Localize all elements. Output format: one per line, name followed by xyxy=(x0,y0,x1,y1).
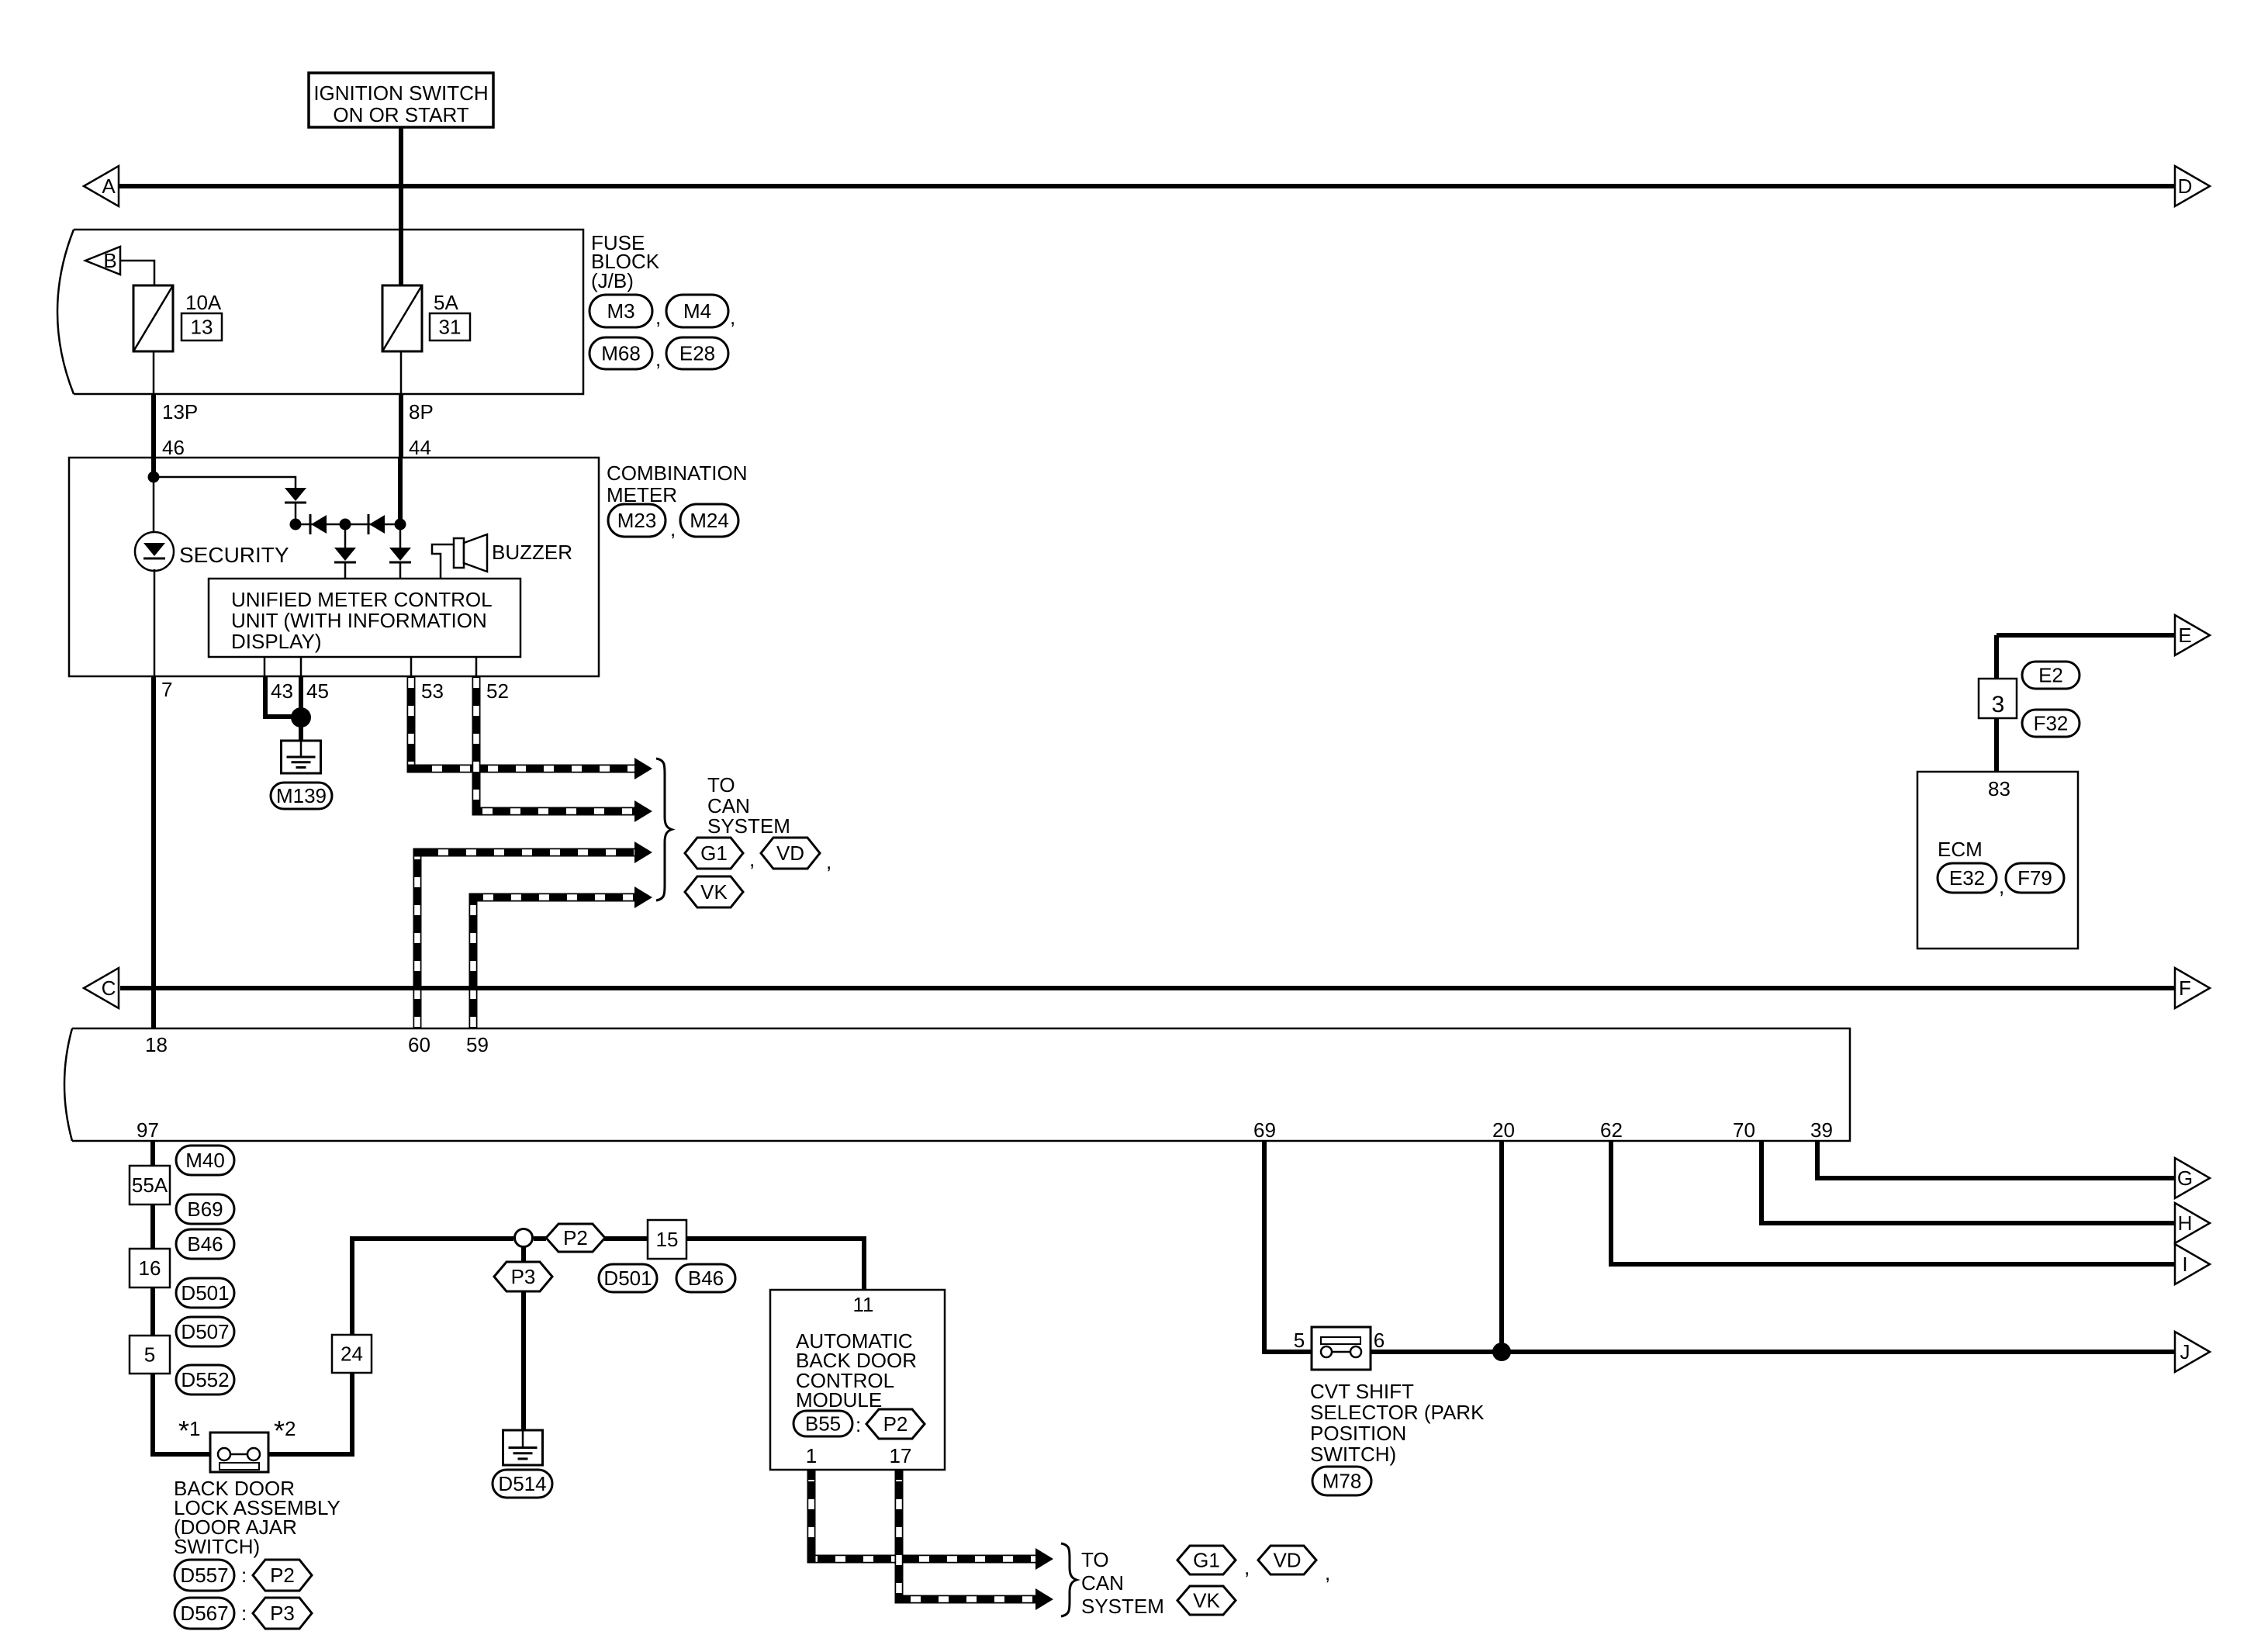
svg-text:P3: P3 xyxy=(511,1265,536,1288)
svg-text:8P: 8P xyxy=(409,400,434,423)
svg-text:UNIT (WITH INFORMATION: UNIT (WITH INFORMATION xyxy=(231,609,487,632)
svg-text:5: 5 xyxy=(144,1343,155,1367)
svg-text:POSITION: POSITION xyxy=(1310,1422,1406,1445)
svg-text:IGNITION SWITCH: IGNITION SWITCH xyxy=(313,81,488,105)
svg-text:D501: D501 xyxy=(181,1281,229,1305)
svg-text:G: G xyxy=(2177,1166,2193,1190)
svg-text:E32: E32 xyxy=(1949,866,1985,890)
svg-text:C: C xyxy=(102,976,116,1000)
svg-text:16: 16 xyxy=(139,1256,161,1280)
svg-text:F32: F32 xyxy=(2034,712,2069,735)
svg-text:ECM: ECM xyxy=(1938,838,1983,861)
svg-text:45: 45 xyxy=(306,679,329,703)
svg-text:59: 59 xyxy=(466,1033,489,1056)
svg-text:M24: M24 xyxy=(690,509,729,532)
svg-text:M139: M139 xyxy=(276,784,327,807)
svg-text:A: A xyxy=(102,175,116,198)
svg-text::: : xyxy=(241,1564,247,1587)
svg-text:18: 18 xyxy=(145,1033,168,1056)
svg-text:M23: M23 xyxy=(617,509,657,532)
svg-text:,: , xyxy=(670,517,676,541)
svg-text:CAN: CAN xyxy=(1081,1571,1124,1595)
svg-text:J: J xyxy=(2180,1340,2190,1363)
svg-text:VK: VK xyxy=(1193,1589,1220,1612)
svg-text:P2: P2 xyxy=(270,1564,295,1587)
svg-text:,: , xyxy=(655,306,661,329)
svg-text:F: F xyxy=(2179,976,2191,1000)
svg-text::: : xyxy=(241,1602,247,1625)
svg-text:SWITCH): SWITCH) xyxy=(174,1535,260,1558)
svg-text:31: 31 xyxy=(439,316,462,339)
svg-text:,: , xyxy=(1999,875,2004,898)
svg-text:M78: M78 xyxy=(1322,1470,1362,1493)
svg-text:,: , xyxy=(655,347,661,371)
svg-text:69: 69 xyxy=(1253,1118,1276,1142)
svg-text:55A: 55A xyxy=(132,1173,168,1197)
svg-text:44: 44 xyxy=(409,436,431,459)
svg-text:6: 6 xyxy=(1374,1329,1385,1352)
svg-text:P2: P2 xyxy=(563,1226,588,1249)
svg-text:DISPLAY): DISPLAY) xyxy=(231,630,322,653)
svg-text:52: 52 xyxy=(486,679,509,703)
svg-text:,: , xyxy=(749,848,755,871)
svg-text:B: B xyxy=(103,249,116,272)
svg-text:24: 24 xyxy=(341,1343,363,1366)
svg-text:VK: VK xyxy=(700,880,728,904)
svg-text:11: 11 xyxy=(853,1293,874,1316)
svg-text:D514: D514 xyxy=(498,1472,546,1495)
svg-text:15: 15 xyxy=(656,1228,679,1251)
svg-text:SECURITY: SECURITY xyxy=(179,543,289,567)
svg-text:,: , xyxy=(1244,1556,1250,1579)
svg-text:62: 62 xyxy=(1600,1118,1623,1142)
svg-text:SYSTEM: SYSTEM xyxy=(707,814,790,838)
svg-text:43: 43 xyxy=(271,679,293,703)
svg-text:SELECTOR (PARK: SELECTOR (PARK xyxy=(1310,1401,1485,1424)
svg-text:13: 13 xyxy=(191,316,213,339)
svg-text:G1: G1 xyxy=(700,842,728,865)
svg-text:D552: D552 xyxy=(181,1368,229,1391)
svg-text:D: D xyxy=(2178,175,2193,198)
svg-text:SWITCH): SWITCH) xyxy=(1310,1443,1396,1466)
svg-text:M3: M3 xyxy=(607,299,634,323)
svg-text:G1: G1 xyxy=(1193,1549,1220,1572)
svg-text:,: , xyxy=(826,850,831,873)
svg-text:70: 70 xyxy=(1733,1118,1755,1142)
svg-text:M4: M4 xyxy=(683,299,711,323)
svg-text:17: 17 xyxy=(890,1444,912,1467)
svg-text:SYSTEM: SYSTEM xyxy=(1081,1595,1164,1618)
svg-text:M40: M40 xyxy=(185,1149,225,1172)
svg-text:60: 60 xyxy=(408,1033,430,1056)
svg-text:M68: M68 xyxy=(601,342,641,365)
svg-text:13P: 13P xyxy=(162,400,198,423)
svg-text::: : xyxy=(856,1413,861,1436)
svg-text:5A: 5A xyxy=(434,291,458,314)
svg-text:D557: D557 xyxy=(180,1564,228,1587)
svg-text:53: 53 xyxy=(421,679,444,703)
svg-text:83: 83 xyxy=(1988,777,2010,800)
svg-text:TO: TO xyxy=(1081,1548,1109,1571)
svg-text:3: 3 xyxy=(1992,692,2005,717)
svg-text:39: 39 xyxy=(1810,1118,1833,1142)
svg-text:VD: VD xyxy=(1273,1549,1301,1572)
svg-text:E2: E2 xyxy=(2038,664,2063,687)
svg-text:D507: D507 xyxy=(181,1320,229,1343)
svg-text:(J/B): (J/B) xyxy=(591,269,634,292)
svg-text:BUZZER: BUZZER xyxy=(492,541,572,564)
svg-text:5: 5 xyxy=(1294,1329,1305,1352)
svg-text:E28: E28 xyxy=(679,342,715,365)
svg-text:B55: B55 xyxy=(805,1412,841,1436)
svg-text:UNIFIED METER CONTROL: UNIFIED METER CONTROL xyxy=(231,588,493,611)
svg-text:46: 46 xyxy=(162,436,185,459)
svg-text:COMBINATION: COMBINATION xyxy=(607,461,748,485)
svg-text:E: E xyxy=(2178,624,2191,647)
svg-text:,: , xyxy=(1325,1561,1330,1585)
svg-text:B69: B69 xyxy=(187,1198,223,1221)
svg-text:TO: TO xyxy=(707,773,735,797)
svg-text:97: 97 xyxy=(137,1118,159,1142)
svg-text:H: H xyxy=(2178,1211,2193,1235)
svg-text:7: 7 xyxy=(161,678,172,701)
svg-text:20: 20 xyxy=(1492,1118,1515,1142)
svg-text:D501: D501 xyxy=(603,1267,652,1290)
svg-text:,: , xyxy=(730,306,735,329)
svg-text:D567: D567 xyxy=(180,1602,228,1625)
svg-text:ON OR START: ON OR START xyxy=(333,103,468,126)
svg-text:B46: B46 xyxy=(688,1267,724,1290)
svg-text:1: 1 xyxy=(806,1444,817,1467)
svg-text:MODULE: MODULE xyxy=(796,1388,882,1412)
svg-text:B46: B46 xyxy=(187,1232,223,1256)
svg-text:P2: P2 xyxy=(883,1412,908,1436)
svg-text:I: I xyxy=(2182,1253,2187,1276)
svg-text:F79: F79 xyxy=(2017,866,2052,890)
svg-text:10A: 10A xyxy=(185,291,222,314)
svg-text:CVT SHIFT: CVT SHIFT xyxy=(1310,1380,1414,1403)
svg-text:P3: P3 xyxy=(270,1602,295,1625)
svg-text:VD: VD xyxy=(776,842,804,865)
